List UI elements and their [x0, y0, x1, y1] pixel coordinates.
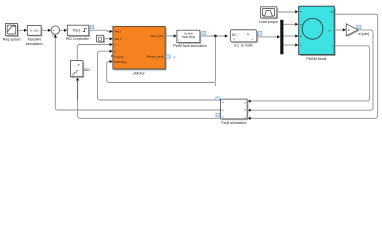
svg-text:eMotor: eMotor — [133, 71, 145, 75]
demux bar — [280, 20, 283, 55]
logging tag at w rpm — [357, 25, 361, 28]
svg-text:PID Controller: PID Controller — [66, 37, 90, 41]
logging tag at PWM fault simulation output — [202, 31, 206, 34]
block d.c. to Volts — [230, 30, 258, 48]
svg-text:PWM fault simulation: PWM fault simulation — [173, 44, 207, 48]
wire Load torque to motor input1 — [277, 11, 295, 13]
gain K — [346, 24, 359, 37]
wire gain output loop to Fault simulation in2 — [251, 30, 373, 110]
wire MaGAN to Sum — [41, 29, 48, 31]
svg-text:Debug output: Debug output — [147, 55, 164, 59]
wire motor out3 loop to Fault simulation in1 — [251, 46, 370, 101]
svg-text:DC: DC — [232, 33, 237, 37]
svg-text:Fault simulation: Fault simulation — [221, 121, 246, 125]
svg-text:Comport: Comport — [114, 56, 124, 59]
svg-text:Ref I*: Ref I* — [115, 37, 123, 41]
junction node on duty wire — [214, 35, 217, 38]
svg-text:PMSM Motor: PMSM Motor — [306, 57, 327, 61]
wire feedback rail through tag to eMotor input (y=100) — [98, 51, 220, 100]
svg-text:PI(s): PI(s) — [73, 29, 80, 33]
svg-text:F: F — [174, 56, 176, 60]
logging tag at d.c. to Volts output — [258, 31, 262, 35]
svg-text:Duty cycle: Duty cycle — [150, 34, 163, 38]
wire Duty cycle to PWM fault simulation — [165, 35, 174, 37]
block ADC — [70, 61, 91, 78]
block MaGAN simulation — [26, 25, 43, 46]
wire ADC output to eMotor input — [77, 45, 109, 61]
svg-text:PWM PWM: PWM PWM — [182, 36, 195, 39]
svg-text:+: + — [52, 34, 54, 38]
wire d.c. to Volts to demux bar — [257, 36, 277, 38]
block Fault simulation — [221, 99, 249, 125]
wire duty branch down and back to eMotor PWM Diag input — [107, 37, 216, 86]
block Load torque — [259, 7, 278, 24]
orange subsystem eMotor — [111, 26, 166, 75]
wire motor out1 loop to Fault simulation in3 — [251, 14, 378, 118]
svg-text:m: m — [329, 29, 331, 32]
wire PID to eMotor Ref I input — [89, 30, 110, 31]
svg-text:simulation: simulation — [26, 42, 43, 46]
logging tag at Fault simulation left port2 — [216, 113, 220, 117]
svg-text:PWM Diag: PWM Diag — [114, 61, 127, 64]
wire feedback rail to Sum (y=110) — [55, 37, 220, 110]
svg-text:d.c. to Volts: d.c. to Volts — [234, 44, 253, 48]
svg-text:Ref I: Ref I — [115, 30, 121, 34]
block PMSM Motor — [299, 6, 336, 61]
svg-text:Req speed: Req speed — [3, 37, 21, 41]
svg-text:K: K — [348, 28, 350, 32]
svg-text:Load torque: Load torque — [259, 20, 278, 24]
block PWM fault simulation — [173, 30, 207, 48]
wire small block to eMotor Ref I* input — [104, 38, 110, 40]
svg-text:w [rpm]: w [rpm] — [358, 32, 369, 36]
block Req speed — [3, 24, 21, 42]
svg-text:In .Out: In .Out — [30, 29, 39, 33]
sum junction — [51, 26, 59, 38]
logging tag at PID output — [90, 25, 93, 28]
svg-text:ADC: ADC — [84, 68, 91, 72]
logging tag at Fault simulation left port1 — [216, 97, 220, 101]
svg-text:2°: 2° — [78, 63, 80, 67]
wire motor out2 to gain — [334, 29, 343, 31]
block PID Controller — [66, 25, 90, 41]
wire PWM fault simulation to d.c. to Volts — [200, 35, 225, 37]
wire demux stubs to motor inputs — [283, 24, 295, 45]
wire Sum to PID — [60, 29, 65, 31]
wire feedback rail to ADC input (y=118.3) — [78, 100, 220, 118]
logging tag at Debug output — [166, 55, 170, 58]
wire Req speed to MaGAN — [17, 29, 24, 31]
small block (conversion) — [97, 35, 105, 43]
